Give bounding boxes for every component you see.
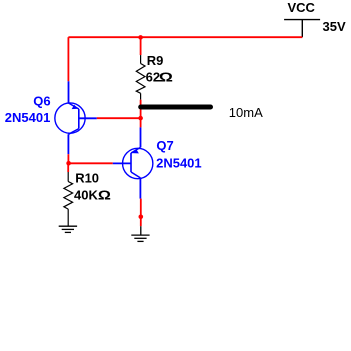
junction node Q6/R10/Q7 [66,161,71,166]
junction Q7 collector / ground [139,215,144,220]
wire Q6 base [97,117,141,119]
wire left vertical [67,37,69,81]
svg-text:35V: 35V [323,19,346,34]
wire top rail [68,36,302,38]
svg-text:2N5401: 2N5401 [156,156,202,171]
resistor R10 [64,172,73,226]
junction top rail / R9 [138,35,143,40]
svg-text:40K: 40K [74,187,98,202]
ground (under R10) [59,226,77,232]
svg-text:10mA: 10mA [229,105,263,120]
transistor Q7 [113,127,153,198]
power symbol VCC [284,20,320,38]
svg-text:R10: R10 [75,170,99,185]
wire Q7 collector down [140,199,142,227]
resistor R9 [136,55,145,100]
wire Q6 collector to node [67,154,69,163]
svg-text:R9: R9 [147,53,164,68]
svg-text:2N5401: 2N5401 [5,110,51,125]
svg-text:VCC: VCC [288,0,316,15]
svg-text:Q7: Q7 [156,138,173,153]
wire R9 top stub [140,37,142,55]
wire R9 to Q7 emitter [140,100,142,128]
wire node to Q7 base [69,162,113,164]
junction Q6 base node [138,116,143,121]
svg-text:Ω: Ω [98,189,111,203]
svg-text:Q6: Q6 [33,94,50,109]
svg-text:Ω: Ω [159,71,173,85]
ground (under Q7) [131,226,149,241]
current probe bar 10mA [141,105,211,110]
wire node to R10 [67,163,69,172]
transistor Q6 [55,81,97,154]
